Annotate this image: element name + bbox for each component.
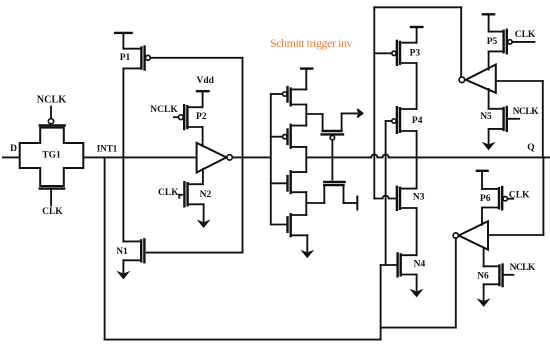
svg-text:N1: N1 bbox=[116, 247, 128, 257]
svg-text:NCLK: NCLK bbox=[513, 107, 540, 117]
svg-text:N5: N5 bbox=[480, 112, 492, 122]
svg-text:P1: P1 bbox=[120, 53, 131, 63]
svg-text:CLK: CLK bbox=[515, 30, 536, 40]
svg-text:CLK: CLK bbox=[509, 191, 530, 201]
svg-text:P3: P3 bbox=[410, 49, 421, 59]
svg-text:P2: P2 bbox=[196, 112, 207, 122]
svg-text:INT1: INT1 bbox=[97, 143, 118, 153]
svg-text:N2: N2 bbox=[200, 190, 212, 200]
svg-text:NCLK: NCLK bbox=[510, 263, 536, 273]
svg-text:N4: N4 bbox=[414, 260, 426, 270]
svg-text:Q: Q bbox=[527, 143, 534, 153]
svg-text:Schmitt trigger inv: Schmitt trigger inv bbox=[270, 36, 353, 50]
svg-text:N6: N6 bbox=[477, 272, 489, 282]
svg-text:D: D bbox=[10, 144, 17, 154]
svg-text:P6: P6 bbox=[480, 194, 491, 204]
svg-text:NCLK: NCLK bbox=[37, 94, 67, 105]
svg-text:NCLK: NCLK bbox=[150, 105, 178, 115]
svg-text:N3: N3 bbox=[413, 192, 425, 202]
svg-text:CLK: CLK bbox=[158, 188, 179, 198]
svg-text:Vdd: Vdd bbox=[196, 76, 214, 86]
svg-text:P4: P4 bbox=[412, 116, 423, 126]
svg-text:CLK: CLK bbox=[42, 207, 63, 217]
svg-text:P5: P5 bbox=[487, 37, 498, 47]
svg-text:TG1: TG1 bbox=[42, 151, 61, 161]
